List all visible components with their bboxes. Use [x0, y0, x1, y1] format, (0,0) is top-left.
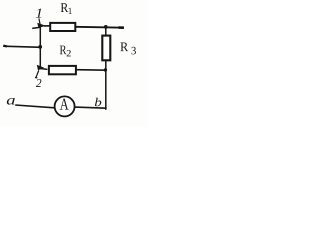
- resistor R3: [102, 36, 110, 61]
- wire: branch 1 to R1: [44, 25, 51, 27]
- label: contact 2: [36, 79, 41, 87]
- wire: R3 bottom lead down to node b corner: [105, 60, 107, 110]
- switch contact 1 (arrow blade): [32, 18, 46, 28]
- wire: bottom right lead ammeter to b corner: [75, 107, 107, 108]
- node: top junction: [104, 25, 108, 29]
- label: contact 1: [36, 9, 42, 18]
- node a label: [7, 98, 15, 105]
- node: switch common junction: [38, 45, 42, 49]
- wire: R3 top lead: [105, 27, 107, 36]
- label R1: [61, 3, 72, 14]
- wire: switch common vertical bus: [39, 27, 41, 68]
- resistor R1: [50, 23, 75, 31]
- wire: left input lead: [3, 46, 41, 48]
- node: right junction with branch 2: [104, 68, 107, 71]
- label R3: [120, 43, 135, 55]
- ammeter A: [55, 96, 75, 116]
- label R2: [60, 46, 71, 57]
- switch contact 2 (arrow blade): [35, 65, 44, 78]
- wire: branch 2 right segment to junction: [76, 69, 106, 72]
- node b label: [95, 98, 101, 106]
- resistor R2: [49, 66, 76, 74]
- wire: top rail right of R1: [75, 26, 124, 29]
- wire: bottom left lead a to ammeter: [15, 105, 54, 108]
- wire: branch 2 to R2: [40, 68, 47, 71]
